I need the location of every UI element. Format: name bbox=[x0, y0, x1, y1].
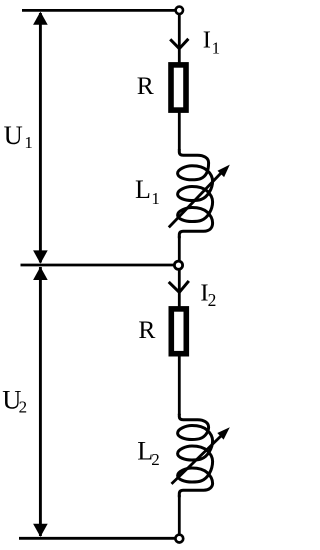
svg-text:1: 1 bbox=[212, 38, 221, 57]
svg-text:L: L bbox=[135, 175, 151, 204]
inductor L1 (coil) bbox=[178, 149, 213, 238]
svg-text:2: 2 bbox=[208, 290, 217, 310]
wire bottom rail bbox=[19, 537, 176, 540]
svg-text:2: 2 bbox=[151, 450, 160, 469]
variable-inductor arrow through L1 bbox=[169, 165, 230, 228]
inductor L2 (coil) bbox=[178, 414, 213, 498]
current arrow I2 (chevron) bbox=[169, 281, 189, 292]
svg-text:2: 2 bbox=[19, 398, 28, 417]
variable-inductor arrow through L2 bbox=[172, 427, 230, 484]
resistor R2 bbox=[171, 309, 186, 354]
svg-text:R: R bbox=[137, 71, 154, 100]
voltage arrow U2 bbox=[33, 267, 48, 537]
wire: R1 to L1 bbox=[178, 110, 181, 150]
wire: R2 to L2 bbox=[178, 354, 181, 415]
label I2 bbox=[200, 280, 216, 310]
terminal node (top) bbox=[176, 7, 183, 14]
label L1 bbox=[135, 175, 160, 208]
wire: L1 to middle node bbox=[178, 236, 181, 261]
label L2 bbox=[137, 437, 160, 469]
svg-text:1: 1 bbox=[24, 133, 33, 152]
voltage arrow U1 bbox=[33, 12, 48, 264]
label U1 bbox=[4, 120, 33, 152]
terminal node (bottom) bbox=[175, 535, 183, 543]
label I1 bbox=[203, 27, 220, 58]
svg-text:1: 1 bbox=[151, 189, 160, 208]
svg-text:U: U bbox=[4, 120, 23, 150]
label U2 bbox=[2, 385, 27, 417]
wire middle rail bbox=[21, 264, 175, 267]
wire: middle node to resistor R2 bbox=[178, 270, 181, 309]
wire top rail bbox=[22, 9, 176, 12]
wire: top node to resistor R1 bbox=[178, 13, 181, 66]
wire: L2 to bottom node bbox=[178, 495, 181, 535]
resistor R1 bbox=[171, 65, 186, 110]
svg-text:R: R bbox=[138, 315, 155, 344]
node (middle junction) bbox=[174, 261, 182, 269]
svg-text:I: I bbox=[203, 27, 211, 54]
current arrow I1 (chevron) bbox=[170, 39, 188, 49]
